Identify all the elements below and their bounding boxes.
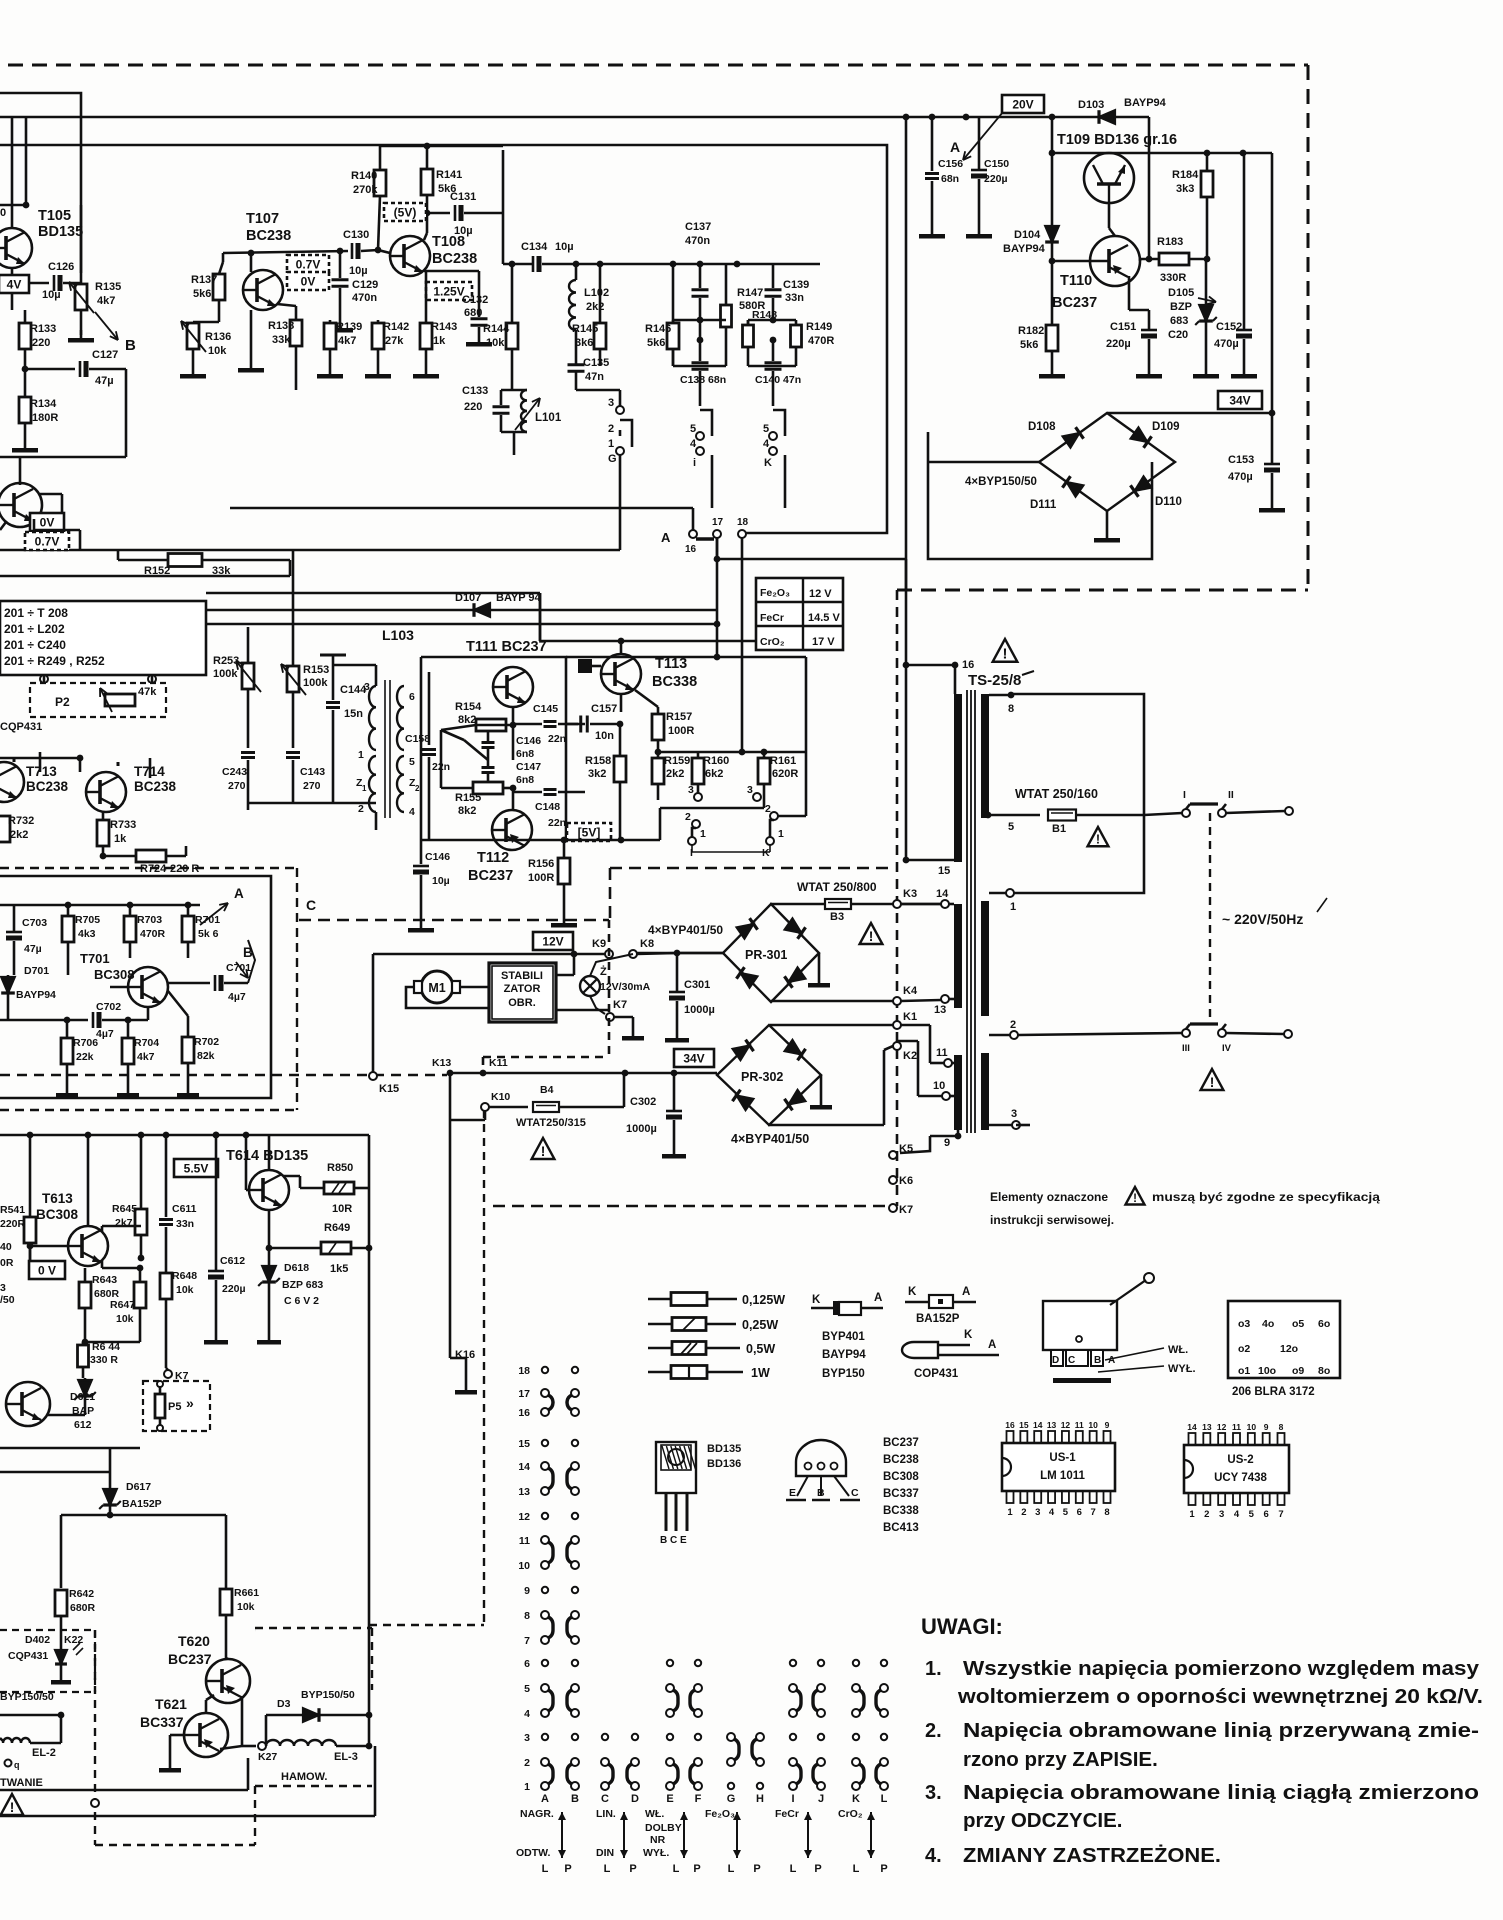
svg-text:P: P	[564, 1863, 571, 1875]
resistor R706 22k	[61, 1038, 73, 1064]
svg-text:33n: 33n	[176, 1218, 194, 1230]
svg-text:5k6: 5k6	[1020, 339, 1038, 351]
svg-text:BAYP94: BAYP94	[16, 989, 56, 1001]
svg-text:P: P	[814, 1863, 821, 1875]
transistor T109 BD136	[1084, 153, 1134, 203]
svg-text:A: A	[962, 1286, 970, 1298]
svg-text:220µ: 220µ	[1106, 338, 1131, 350]
svg-text:9: 9	[1105, 1420, 1110, 1430]
svg-text:4.: 4.	[925, 1845, 942, 1867]
capacitor C143 270	[286, 751, 300, 754]
resistor R703 470R	[124, 916, 136, 942]
svg-text:3: 3	[0, 1282, 6, 1294]
svg-text:BYP150/50: BYP150/50	[0, 1691, 54, 1703]
svg-text:US-2: US-2	[1227, 1454, 1253, 1466]
svg-text:10k: 10k	[486, 337, 505, 349]
svg-text:II: II	[1228, 789, 1234, 801]
svg-text:PR-301: PR-301	[745, 948, 787, 962]
transistor T107 BC238	[243, 270, 283, 310]
svg-text:B4: B4	[540, 1084, 554, 1096]
svg-text:2: 2	[524, 1757, 530, 1769]
outer dashed border top	[8, 64, 1308, 67]
switch I II	[1144, 813, 1182, 815]
svg-text:R184: R184	[1172, 169, 1199, 181]
svg-text:5k 6: 5k 6	[198, 928, 219, 940]
svg-text:J: J	[818, 1793, 824, 1805]
svg-text:US-1: US-1	[1049, 1452, 1076, 1464]
svg-text:(5V): (5V)	[394, 206, 417, 220]
svg-text:220: 220	[32, 337, 50, 349]
transistor T111 BC237	[493, 667, 533, 707]
svg-text:2: 2	[1021, 1507, 1026, 1518]
svg-text:BC337: BC337	[140, 1714, 184, 1730]
svg-text:2k2: 2k2	[586, 301, 604, 313]
wire T107 collector to rail	[250, 253, 253, 272]
bottom rail T111 section	[421, 839, 660, 842]
svg-text:R152: R152	[144, 565, 170, 577]
svg-text:R706: R706	[73, 1037, 98, 1049]
svg-text:BC413: BC413	[883, 1522, 919, 1534]
pin 3	[1012, 1121, 1020, 1129]
svg-text:K: K	[764, 457, 772, 469]
svg-text:L: L	[728, 1863, 735, 1875]
svg-text:5k6: 5k6	[193, 288, 211, 300]
svg-text:C130: C130	[343, 229, 369, 241]
svg-text:A: A	[541, 1793, 549, 1805]
svg-text:L: L	[542, 1863, 549, 1875]
svg-text:B1: B1	[1052, 823, 1066, 835]
svg-text:33k: 33k	[212, 565, 231, 577]
svg-text:M1: M1	[428, 981, 445, 995]
svg-text:10: 10	[518, 1560, 530, 1572]
svg-text:470n: 470n	[352, 292, 377, 304]
K1 terminal	[893, 1021, 901, 1029]
svg-text:4V: 4V	[7, 278, 22, 292]
svg-text:16: 16	[518, 1407, 530, 1419]
svg-text:B: B	[125, 337, 136, 354]
svg-text:HAMOW.: HAMOW.	[281, 1771, 327, 1783]
svg-text:B C E: B C E	[660, 1535, 687, 1546]
svg-text:R137: R137	[191, 274, 217, 286]
dashed section line around power	[610, 867, 893, 870]
svg-text:C126: C126	[48, 261, 74, 273]
svg-text:12: 12	[1217, 1422, 1227, 1432]
IC US-2 UCY 7438	[1184, 1445, 1289, 1493]
svg-text:A: A	[874, 1292, 882, 1304]
svg-text:D3: D3	[277, 1698, 291, 1710]
svg-text:270k: 270k	[353, 184, 378, 196]
svg-text:UWAGI:: UWAGI:	[921, 1614, 1003, 1639]
svg-text:20V: 20V	[1012, 98, 1033, 112]
svg-text:1k: 1k	[433, 335, 446, 347]
capacitor C140 47n	[765, 361, 782, 364]
warning PR301	[860, 923, 883, 944]
resistor R142 27k	[372, 323, 384, 349]
capacitor C703 47u	[6, 931, 22, 934]
svg-text:R702: R702	[194, 1036, 219, 1048]
svg-text:201 ÷ L202: 201 ÷ L202	[4, 622, 65, 636]
E/F column	[667, 1660, 673, 1666]
svg-text:A: A	[661, 530, 671, 545]
transistor T112 BC237	[492, 810, 532, 850]
diode D621 BAP 612	[78, 1380, 92, 1396]
svg-text:C: C	[1068, 1355, 1075, 1366]
G/H column	[727, 1733, 735, 1741]
[5V] dashed label	[567, 823, 611, 841]
capacitor C131 10u	[454, 205, 457, 221]
svg-text:P2: P2	[55, 695, 70, 709]
svg-text:R143: R143	[431, 321, 457, 333]
lamp Z 12V/30mA	[580, 976, 600, 996]
svg-text:R703: R703	[137, 914, 162, 926]
pin box 206BLRA3172	[1228, 1301, 1340, 1378]
bottom solid wires	[0, 1789, 248, 1792]
svg-text:C134: C134	[521, 241, 548, 253]
svg-text:C129: C129	[352, 279, 378, 291]
svg-text:T113: T113	[655, 656, 687, 672]
dashed vertical K3-K7 line	[896, 590, 899, 1206]
capacitor C137 470n	[692, 288, 709, 291]
svg-text:14.5 V: 14.5 V	[808, 612, 840, 624]
K3 terminal	[893, 900, 901, 908]
transistor T105 BD135	[0, 228, 32, 268]
svg-text:A: A	[950, 139, 960, 155]
K6 terminal	[889, 1176, 897, 1184]
svg-text:C148: C148	[535, 801, 560, 813]
svg-text:6: 6	[1264, 1509, 1269, 1520]
[34V] label	[1218, 391, 1262, 409]
capacitor C139 33n	[765, 288, 782, 291]
dashed frame T70x	[296, 868, 298, 1110]
svg-text:1.25V: 1.25V	[433, 285, 464, 299]
svg-text:P5: P5	[168, 1401, 181, 1413]
svg-text:17 V: 17 V	[812, 636, 835, 648]
svg-text:R145: R145	[572, 323, 598, 335]
svg-text:0.7V: 0.7V	[296, 258, 321, 272]
[xV] box small	[0, 275, 29, 293]
T701 section box	[0, 876, 271, 1098]
svg-text:14: 14	[1033, 1420, 1043, 1430]
svg-text:8: 8	[1104, 1507, 1109, 1518]
svg-text:683: 683	[1170, 315, 1188, 327]
svg-text:WTAT 250/160: WTAT 250/160	[1015, 787, 1098, 801]
svg-text:Napięcia obramowane linią prze: Napięcia obramowane linią przerywaną zmi…	[963, 1719, 1479, 1742]
svg-text:C132: C132	[462, 294, 488, 306]
T113 collector stub	[620, 641, 623, 654]
capacitor C611 33n	[159, 1218, 173, 1221]
svg-text:D618: D618	[284, 1262, 309, 1274]
svg-text:BC238: BC238	[134, 779, 177, 794]
inductor EL-3	[258, 1742, 266, 1750]
diode D103 BAYP94	[1099, 110, 1115, 124]
svg-text:!: !	[1210, 1075, 1215, 1090]
svg-text:B: B	[817, 1487, 825, 1499]
capacitor C129 470n	[332, 278, 349, 281]
svg-text:7: 7	[1090, 1507, 1095, 1518]
svg-text:R182: R182	[1018, 325, 1044, 337]
svg-text:13: 13	[934, 1004, 946, 1016]
resistor R704 4k7	[122, 1038, 134, 1064]
junction at rail	[903, 114, 910, 121]
svg-text:8: 8	[524, 1610, 530, 1622]
wire filter pin G down to bus	[619, 455, 622, 550]
svg-text:FeCr: FeCr	[760, 612, 784, 624]
svg-text:C: C	[601, 1793, 609, 1805]
svg-text:ODTW.: ODTW.	[516, 1847, 550, 1859]
svg-text:D621: D621	[70, 1391, 95, 1403]
dashed voltage labels 0.7V 0V	[287, 255, 329, 273]
svg-text:22k: 22k	[76, 1051, 94, 1063]
svg-text:K22: K22	[64, 1634, 83, 1646]
pin 9	[955, 1133, 962, 1140]
svg-text:WŁ.: WŁ.	[645, 1808, 664, 1820]
svg-text:R541: R541	[0, 1204, 25, 1216]
resistor R724 220R	[136, 850, 166, 862]
svg-text:DIN: DIN	[596, 1847, 614, 1859]
svg-text:10o: 10o	[1258, 1365, 1276, 1377]
capacitor C157 10n	[579, 716, 582, 733]
svg-text:12V/30mA: 12V/30mA	[600, 981, 651, 993]
T620/T621 wires	[226, 1658, 228, 1659]
svg-text:NR: NR	[650, 1834, 666, 1846]
svg-text:180R: 180R	[32, 412, 58, 424]
svg-text:C302: C302	[630, 1096, 656, 1108]
svg-text:DOLBY: DOLBY	[645, 1822, 682, 1834]
TO-92 package	[796, 1440, 846, 1476]
svg-text:8k2: 8k2	[458, 805, 476, 817]
svg-text:3.: 3.	[925, 1782, 942, 1804]
svg-text:22n: 22n	[548, 817, 566, 829]
svg-text:R161: R161	[770, 755, 796, 767]
svg-text:270: 270	[303, 780, 321, 792]
top rail of T108	[380, 145, 503, 148]
svg-text:5.5V: 5.5V	[184, 1162, 209, 1176]
resistor R733 1k	[97, 820, 109, 846]
resistor R148 1k	[743, 325, 754, 347]
bridge rectifier D108-D111	[1039, 413, 1175, 511]
svg-text:K7: K7	[613, 999, 627, 1011]
svg-text:P: P	[629, 1863, 636, 1875]
svg-text:Ż: Ż	[600, 965, 607, 978]
capacitor C135 47n	[568, 363, 585, 366]
svg-text:470µ: 470µ	[1214, 338, 1239, 350]
svg-text:7: 7	[524, 1635, 530, 1647]
capacitor C301 1000u	[669, 991, 685, 994]
svg-text:BC237: BC237	[468, 868, 513, 884]
transistor T614 BD135	[249, 1170, 289, 1210]
svg-text:C301: C301	[684, 979, 710, 991]
svg-text:470R: 470R	[808, 335, 834, 347]
svg-text:16: 16	[1005, 1420, 1015, 1430]
svg-text:instrukcji serwisowej.: instrukcji serwisowej.	[990, 1213, 1114, 1227]
STABILIZATOR OBR box	[489, 963, 556, 1022]
svg-text:D107: D107	[455, 592, 481, 604]
svg-text:G: G	[608, 453, 617, 465]
T109 base lead down to T110	[1108, 203, 1111, 228]
svg-text:C145: C145	[533, 703, 558, 715]
svg-text:2k2: 2k2	[666, 768, 684, 780]
svg-text:4: 4	[524, 1708, 530, 1720]
svg-text:o2: o2	[1238, 1343, 1250, 1355]
K7 terminal lamp	[606, 1013, 614, 1021]
resistor R140 270k	[374, 170, 386, 196]
K2 terminal	[893, 1042, 901, 1050]
filter frame wires	[673, 319, 726, 322]
svg-text:14: 14	[936, 888, 949, 900]
transistor T713 BC238	[0, 762, 24, 802]
svg-text:10µ: 10µ	[432, 875, 450, 887]
wires top of lower-left	[0, 1447, 140, 1450]
svg-text:5: 5	[1249, 1509, 1255, 1520]
svg-text:R643: R643	[92, 1274, 117, 1286]
svg-text:P: P	[880, 1863, 887, 1875]
svg-text:2k2: 2k2	[10, 829, 28, 841]
pin 10	[942, 1092, 950, 1100]
svg-text:3: 3	[608, 397, 614, 409]
svg-text:T614 BD135: T614 BD135	[226, 1148, 308, 1164]
K7 terminal on dashed	[889, 1204, 897, 1212]
svg-text:!: !	[10, 1800, 15, 1815]
svg-text:R140: R140	[351, 170, 377, 182]
svg-text:BC238: BC238	[883, 1454, 919, 1466]
svg-text:R135: R135	[95, 281, 121, 293]
svg-text:R732: R732	[8, 815, 34, 827]
svg-text:330 R: 330 R	[90, 1354, 118, 1366]
svg-text:G: G	[727, 1793, 736, 1805]
svg-text:/50: /50	[0, 1294, 15, 1306]
transistor T714 BC238	[86, 772, 126, 812]
svg-text:68n: 68n	[941, 173, 959, 185]
svg-text:WŁ.: WŁ.	[1168, 1344, 1188, 1356]
svg-text:L: L	[673, 1863, 680, 1875]
wire T108 collector	[424, 233, 427, 240]
svg-text:BC338: BC338	[883, 1505, 919, 1517]
svg-text:C135: C135	[583, 357, 609, 369]
svg-text:BYP150/50: BYP150/50	[301, 1689, 355, 1701]
resistor R645 2k7	[135, 1209, 147, 1235]
svg-text:C137: C137	[685, 221, 711, 233]
svg-text:K: K	[852, 1793, 860, 1805]
wires T613	[30, 1245, 68, 1248]
capacitor C702 4u7	[92, 1012, 95, 1028]
svg-text:C243: C243	[222, 766, 247, 778]
diode D3 BYP150/50	[303, 1708, 319, 1722]
svg-text:!: !	[869, 929, 874, 944]
svg-text:R647: R647	[110, 1299, 135, 1311]
diode D107 BAYP94	[206, 609, 717, 612]
svg-text:27k: 27k	[385, 335, 404, 347]
svg-text:D104: D104	[1014, 229, 1041, 241]
svg-text:R141: R141	[436, 169, 462, 181]
resistor R702 82k	[182, 1037, 194, 1063]
svg-text:BC308: BC308	[94, 967, 134, 982]
T111 group box	[421, 657, 566, 840]
svg-text:4: 4	[409, 806, 415, 818]
wire T108 emitter to C132	[424, 270, 479, 273]
svg-text:47µ: 47µ	[24, 943, 42, 955]
top wire T701 box	[0, 904, 200, 907]
svg-text:1: 1	[778, 828, 784, 840]
svg-text:6: 6	[1077, 1507, 1082, 1518]
svg-text:C156: C156	[938, 158, 963, 170]
svg-text:6: 6	[409, 691, 415, 703]
svg-text:C703: C703	[22, 917, 47, 929]
resistor R146 5k6	[667, 323, 679, 349]
transistor T613 BC308	[68, 1226, 108, 1266]
svg-text:R183: R183	[1157, 236, 1183, 248]
svg-text:o9: o9	[1292, 1365, 1304, 1377]
svg-text:R154: R154	[455, 701, 482, 713]
svg-text:6n8: 6n8	[516, 748, 534, 760]
svg-text:rzono przy ZAPISIE.: rzono przy ZAPISIE.	[963, 1748, 1158, 1771]
svg-text:BAYP94: BAYP94	[1003, 243, 1046, 255]
capacitor C152 470u	[1236, 329, 1252, 332]
svg-text:11: 11	[1232, 1422, 1241, 1432]
warning bottom left	[1, 1794, 24, 1815]
ground T107	[250, 310, 253, 360]
svg-text:40: 40	[0, 1241, 12, 1253]
bridge PR-301	[723, 904, 819, 1002]
resistor R154 8k2 horizontal	[476, 719, 506, 731]
svg-text:Wszystkie napięcia pomierzono: Wszystkie napięcia pomierzono względem m…	[963, 1657, 1480, 1680]
svg-text:R138: R138	[268, 320, 294, 332]
svg-text:F: F	[695, 1793, 702, 1805]
svg-text:4k3: 4k3	[78, 928, 96, 940]
resistor R134 180R	[19, 397, 31, 423]
svg-text:3: 3	[747, 784, 753, 796]
svg-text:TS-25/8: TS-25/8	[968, 672, 1021, 689]
svg-text:K15: K15	[379, 1083, 399, 1095]
svg-text:D701: D701	[24, 965, 49, 977]
svg-text:680R: 680R	[70, 1602, 96, 1614]
svg-text:201 ÷ R249 , R252: 201 ÷ R249 , R252	[4, 654, 105, 668]
bridge PR-302	[717, 1025, 821, 1125]
svg-text:0.7V: 0.7V	[35, 535, 60, 549]
capacitor C144 15n	[332, 655, 335, 700]
svg-text:10k: 10k	[208, 345, 227, 357]
capacitor C148 22n	[544, 788, 557, 791]
svg-text:T105: T105	[38, 208, 71, 224]
svg-text:4k7: 4k7	[338, 335, 356, 347]
pin 15	[903, 857, 910, 864]
svg-text:NAGR.: NAGR.	[520, 1808, 554, 1820]
svg-text:33k: 33k	[272, 334, 291, 346]
resistor R541 220R	[24, 1217, 36, 1243]
svg-text:I: I	[1183, 789, 1186, 801]
wire T107 emitter	[277, 304, 296, 306]
svg-text:C131: C131	[450, 191, 476, 203]
svg-text:10: 10	[1247, 1422, 1257, 1432]
capacitor C150 220u	[971, 169, 987, 172]
svg-text:K: K	[964, 1329, 973, 1341]
svg-text:BC308: BC308	[883, 1471, 919, 1483]
callout box T201..	[0, 601, 206, 675]
svg-text:4×BYP401/50: 4×BYP401/50	[731, 1132, 809, 1146]
svg-text:100k: 100k	[213, 668, 238, 680]
svg-text:D108: D108	[1028, 421, 1056, 433]
12V rail	[373, 953, 605, 956]
resistor R156 100R	[558, 858, 570, 884]
svg-text:10µ: 10µ	[349, 265, 368, 277]
svg-text:BAYP94: BAYP94	[1124, 97, 1167, 109]
svg-text:BYP401: BYP401	[822, 1331, 865, 1343]
resistor R147 580R	[721, 305, 732, 327]
svg-text:8: 8	[1008, 703, 1014, 715]
bridge left wire	[928, 461, 1039, 464]
C/D column	[602, 1734, 608, 1740]
mains dashed link	[1209, 813, 1211, 1024]
ground R135	[80, 330, 83, 338]
